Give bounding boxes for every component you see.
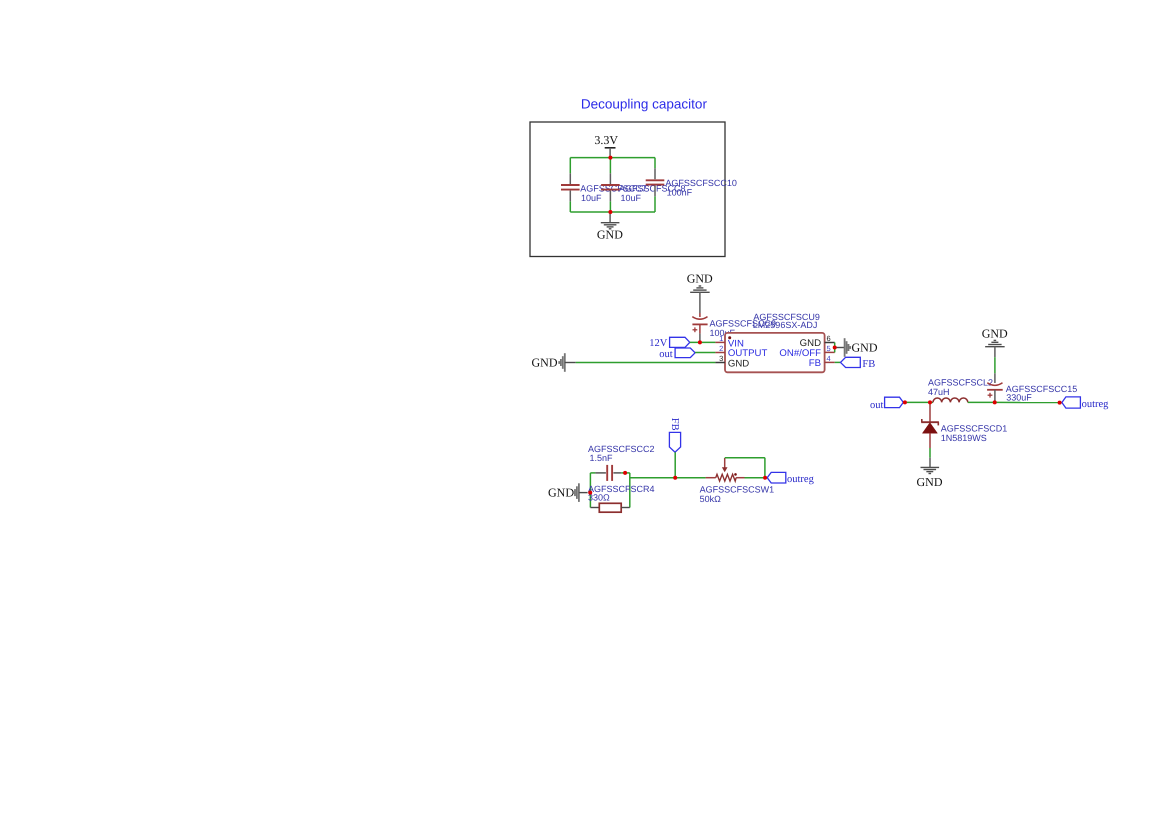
inductor L2 47uH (933, 398, 968, 402)
svg-text:50kΩ: 50kΩ (700, 494, 722, 504)
svg-text:GND: GND (532, 355, 558, 369)
junction node C2 right (623, 471, 627, 475)
junction node C9 to VIN wire (698, 340, 702, 344)
polarized capacitor C15 330uF (994, 373, 996, 383)
svg-text:out: out (659, 349, 673, 360)
wire node to vertical (625, 472, 630, 474)
svg-text:LM2596SX-ADJ: LM2596SX-ADJ (753, 320, 818, 330)
svg-text:2: 2 (719, 344, 723, 353)
wiper arrow of SW1 (724, 458, 726, 468)
svg-text:GND: GND (852, 341, 878, 355)
capacitor C10 100nF (654, 168, 656, 179)
svg-text:12V: 12V (649, 338, 668, 349)
svg-text:out: out (870, 400, 884, 411)
svg-text:330uF: 330uF (1006, 393, 1032, 403)
svg-text:outreg: outreg (787, 474, 815, 485)
svg-text:1: 1 (719, 334, 723, 343)
wire C15 node to outreg (995, 401, 1060, 403)
potentiometer SW1 50k (706, 477, 716, 479)
polarized capacitor C9 100uF (699, 313, 701, 317)
wire C2 to node (621, 472, 625, 474)
junction node diode branch (928, 400, 932, 404)
border frame of decoupling section (530, 122, 725, 257)
ground symbol below decoupling caps (609, 212, 611, 223)
wire left branch vertical (569, 158, 571, 174)
svg-text:6: 6 (827, 334, 831, 343)
svg-text:FB: FB (669, 418, 680, 431)
node at outreg tip (1058, 401, 1062, 405)
svg-text:GND: GND (548, 486, 574, 500)
svg-text:FB: FB (862, 359, 875, 370)
wire right side of RC loop (629, 473, 631, 508)
resistor R4 330 (590, 507, 599, 509)
ground symbol below D1 (929, 458, 931, 468)
junction node C15 (993, 400, 997, 404)
global label FB (841, 357, 861, 367)
svg-text:3.3V: 3.3V (594, 133, 618, 147)
junction node FB tee (673, 476, 677, 480)
svg-text:1.5nF: 1.5nF (590, 453, 614, 463)
wire SW1 right to outreg node (745, 477, 766, 479)
ground symbol right of U9 (844, 338, 846, 357)
wire gnd to C15 (994, 357, 996, 373)
pin 2 OUTPUT (715, 352, 725, 354)
svg-text:3: 3 (719, 354, 723, 363)
junction node gnd tie (833, 346, 837, 350)
svg-text:1N5819WS: 1N5819WS (941, 433, 987, 443)
wire wiper loop right (764, 458, 766, 478)
op-amp U1 regulator LM2596SX-ADJ body (725, 333, 825, 372)
wire out to inductor (905, 401, 933, 403)
junction node at gnd rail (608, 210, 612, 214)
svg-text:GND: GND (687, 272, 713, 286)
wire inductor to C15 node (968, 401, 995, 403)
pin-1 indicator dot inside U9 (728, 336, 731, 339)
svg-text:5: 5 (827, 344, 831, 353)
schottky diode D1 1N5819WS (929, 402, 931, 422)
capacitor C7 10uF (569, 173, 571, 184)
svg-text:FB: FB (809, 358, 821, 369)
svg-text:GND: GND (597, 227, 623, 241)
capacitor C2 1.5nF (595, 472, 606, 474)
pin 1 VIN (715, 341, 725, 343)
wire left side of RC loop (589, 473, 591, 508)
wire middle branch vertical (609, 158, 611, 174)
wire right branch vertical (654, 158, 656, 169)
node at out label tip (903, 400, 907, 404)
svg-text:10uF: 10uF (581, 193, 602, 203)
svg-text:47uH: 47uH (928, 387, 950, 397)
junction node at 3.3V rail (608, 156, 612, 160)
junction node outreg tee (763, 476, 767, 480)
power symbol 3.3V (605, 147, 616, 149)
svg-text:GND: GND (982, 326, 1008, 340)
wiper terminal dot (734, 473, 737, 476)
wire 12V to VIN pin (690, 341, 716, 343)
global label outreg (feedback) (767, 472, 786, 483)
wire 3.3V rail horizontal (570, 157, 655, 159)
wire pin6 down to pin5 (834, 343, 836, 353)
wire top branch to C2 (590, 472, 595, 474)
global label outreg (output) (1062, 397, 1081, 408)
svg-text:GND: GND (728, 358, 749, 369)
pin 6 GND (825, 342, 835, 344)
wire wiper loop top (725, 457, 765, 459)
pin 4 FB (825, 361, 835, 363)
svg-text:outreg: outreg (1082, 399, 1110, 410)
junction node gnd R4 (588, 491, 592, 495)
svg-text:100nF: 100nF (667, 187, 693, 197)
svg-text:10uF: 10uF (621, 193, 642, 203)
wire FB down to node (674, 452, 676, 478)
wire bottom gnd rail horizontal (570, 211, 655, 213)
svg-text:4: 4 (827, 354, 831, 363)
capacitor C8 10uF (609, 173, 611, 184)
wire pin4 to FB label (835, 361, 841, 363)
svg-text:GND: GND (917, 475, 943, 489)
wire out to OUTPUT pin (695, 352, 715, 354)
wire GND to pin 3 (576, 362, 716, 364)
lead to right ground symbol (835, 347, 845, 349)
pin 3 GND (715, 362, 725, 364)
wire main feedback horizontal (630, 477, 706, 479)
svg-text:Decoupling capacitor: Decoupling capacitor (581, 97, 708, 112)
pin 5 ON#/OFF (825, 351, 835, 353)
wire diode to gnd (929, 448, 931, 458)
